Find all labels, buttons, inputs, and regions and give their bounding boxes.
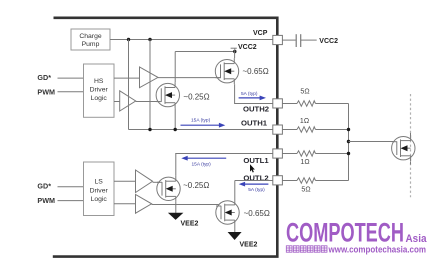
wire T1 to PMOS gate xyxy=(158,77,221,79)
wire T3 to LS NMOS gate xyxy=(153,181,160,183)
svg-text:1Ω: 1Ω xyxy=(300,118,309,125)
row OUTH2: wire + resistor 5ohm xyxy=(282,103,297,105)
svg-text:VEE2: VEE2 xyxy=(181,221,199,228)
wire OUTL2 rail xyxy=(235,180,273,182)
svg-text:VCP: VCP xyxy=(253,30,268,37)
current arrow 15A OUTH1 xyxy=(181,123,226,128)
svg-text:~0.65Ω: ~0.65Ω xyxy=(243,67,269,76)
wire T2 to NMOS gate xyxy=(136,101,160,103)
node dot bus row3 xyxy=(347,152,350,155)
svg-text:Logic: Logic xyxy=(91,196,108,203)
mouse cursor xyxy=(250,164,255,172)
wire PMOS source down to OUTH2 xyxy=(235,84,273,103)
svg-text:15A (typ): 15A (typ) xyxy=(192,161,212,167)
svg-text:5A (typ): 5A (typ) xyxy=(248,187,265,193)
svg-text:PWM: PWM xyxy=(37,196,55,205)
wire GD* to LS box xyxy=(58,186,84,188)
wire capacitor to VCC2 xyxy=(301,39,317,41)
wire NMOS HS drain up xyxy=(174,52,176,83)
svg-text:15A (typ): 15A (typ) xyxy=(191,117,211,123)
capacitor C (VCP-VCC2) xyxy=(296,34,301,47)
svg-text:Driver: Driver xyxy=(90,87,109,94)
svg-text:5Ω: 5Ω xyxy=(301,187,310,194)
buffer T2 (HS bottom) xyxy=(120,91,136,111)
row OUTH1: wire + resistor 1ohm xyxy=(282,129,297,131)
wire bus to external MOSFET gate xyxy=(349,141,395,143)
svg-text:~0.25Ω: ~0.25Ω xyxy=(183,181,209,190)
svg-text:Charge: Charge xyxy=(79,33,102,40)
svg-text:OUTH2: OUTH2 xyxy=(243,105,269,114)
wire LS box to buffer T4 xyxy=(114,203,136,205)
transistor ~0.25ohm HS xyxy=(156,82,179,108)
svg-text:GD*: GD* xyxy=(37,181,51,190)
transistor ~0.65ohm HS (PMOS) xyxy=(215,58,238,84)
buffer T1 (HS top) xyxy=(140,67,159,88)
svg-text:5Ω: 5Ω xyxy=(300,88,309,95)
svg-text:OUTH1: OUTH1 xyxy=(241,118,268,127)
svg-text:www.compotechasia.com: www.compotechasia.com xyxy=(328,244,426,254)
wire NMOS HS source down xyxy=(174,108,176,129)
pin OUTL1 xyxy=(273,149,283,158)
dashed line (external power stage) xyxy=(410,94,412,197)
svg-text:1Ω: 1Ω xyxy=(300,159,309,166)
svg-text:~0.65Ω: ~0.65Ω xyxy=(244,209,270,218)
node dot bus gate xyxy=(347,140,350,143)
svg-text:Driver: Driver xyxy=(90,187,109,194)
wire PWM to HS box xyxy=(58,91,84,93)
charge pump box xyxy=(71,29,110,50)
node dot bus row2 xyxy=(347,128,350,131)
svg-text:OUTL2: OUTL2 xyxy=(243,173,268,182)
buffer T3 (LS top) xyxy=(136,170,153,193)
wire rail2 vertical xyxy=(149,40,151,130)
wire LS NMOS source down to VEE2 xyxy=(175,202,177,213)
logo tagline CJK blocks xyxy=(286,246,327,252)
node dot NMOS source on OUTH1 xyxy=(174,128,177,131)
node dot rail2 top xyxy=(148,38,151,41)
HS driver logic box xyxy=(84,64,115,117)
svg-text:PWM: PWM xyxy=(37,87,55,96)
transistor ~0.65ohm LS (flipped) xyxy=(216,200,239,226)
pin OUTL2 xyxy=(273,176,283,185)
svg-text:LS: LS xyxy=(95,179,104,186)
pin OUTH1 xyxy=(273,125,283,134)
wire HS box to buffer T2 xyxy=(114,101,120,103)
wire PMOS drain up to VCC2 xyxy=(234,52,236,59)
ground VEE2 (LS 0.25) xyxy=(168,213,184,220)
VCC2 tick bar xyxy=(234,48,236,51)
wire T4 to LS 0.65 gate xyxy=(152,204,219,206)
wire LS 0.65 source down to VEE2 xyxy=(234,226,236,233)
svg-text:VCC2: VCC2 xyxy=(238,44,257,51)
wire rail1 vertical xyxy=(128,40,130,130)
wire VCP pin to capacitor xyxy=(282,39,295,41)
wire OUTL1 rail xyxy=(175,153,272,155)
wire PWM to LS box xyxy=(58,200,84,202)
svg-text:VCC2: VCC2 xyxy=(319,38,338,45)
LS driver logic box xyxy=(84,162,115,216)
chip outline (top, right, bottom thick border) xyxy=(53,18,277,257)
wire HS box to buffer T1 xyxy=(114,77,140,79)
node dot rail2 bottom xyxy=(148,128,151,131)
wire LS 0.65 drain up to OUTL2 xyxy=(234,181,236,200)
svg-text:HS: HS xyxy=(94,78,104,85)
current arrow 5A OUTL2 xyxy=(239,182,269,187)
current arrow 15A OUTL1 xyxy=(181,156,226,161)
transistor ~0.25ohm LS (flipped) xyxy=(157,176,180,202)
svg-text:Pump: Pump xyxy=(82,41,100,48)
current arrow 5A OUTH2 xyxy=(239,96,266,101)
wire GD* to HS box xyxy=(58,77,84,79)
node dot rail1 top xyxy=(127,38,130,41)
svg-text:COMPOTECH: COMPOTECH xyxy=(286,218,404,248)
wire VCC2 node horizontal xyxy=(175,51,235,53)
node dot VCC2 xyxy=(233,50,236,53)
wire ext MOSFET source xyxy=(410,162,412,165)
svg-text:5A (typ): 5A (typ) xyxy=(241,91,258,97)
row OUTL1: wire + resistor 1ohm xyxy=(282,153,297,155)
wire OUTH1 rail xyxy=(129,129,273,131)
pin OUTH2 xyxy=(273,99,283,108)
buffer T4 (LS bottom) xyxy=(136,195,152,214)
svg-text:Logic: Logic xyxy=(91,95,108,102)
pin VCP xyxy=(273,35,283,44)
wire LS NMOS drain up to OUTL1 xyxy=(175,154,177,176)
wire charge pump to VCP pin xyxy=(110,39,273,41)
svg-text:~0.25Ω: ~0.25Ω xyxy=(183,93,209,102)
ground VEE2 (LS 0.65) xyxy=(228,232,242,240)
wire LS box to buffer T3 xyxy=(114,180,136,182)
svg-text:VEE2: VEE2 xyxy=(240,242,258,249)
svg-text:Asia: Asia xyxy=(406,233,428,245)
external MOSFET Q xyxy=(392,135,415,161)
svg-text:OUTL1: OUTL1 xyxy=(243,156,269,165)
wire ext MOSFET drain xyxy=(410,133,412,136)
row OUTL2: wire + resistor 5ohm xyxy=(282,180,297,182)
svg-text:GD*: GD* xyxy=(37,73,51,82)
wire gate bus vertical xyxy=(348,104,350,181)
